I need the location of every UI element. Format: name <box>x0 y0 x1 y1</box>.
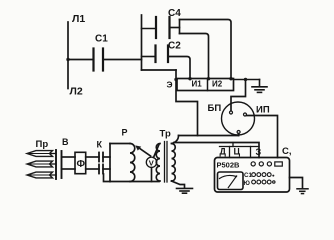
jack row 1 <box>244 172 274 179</box>
svg-text:Р: Р <box>122 128 128 138</box>
wire C2 plate to И1 <box>168 57 192 81</box>
wire C4 plate to И2 <box>170 20 233 81</box>
svg-text:Тр: Тр <box>160 129 171 140</box>
node junction antenna <box>66 58 69 61</box>
svg-text:З: З <box>256 147 262 157</box>
ground G3 <box>297 189 308 194</box>
svg-text:Пр: Пр <box>36 139 49 150</box>
wire bus vertical <box>141 15 143 70</box>
switch window <box>275 162 283 166</box>
mains arrow 2 <box>27 161 56 167</box>
svg-text:Ю: Ю <box>244 180 251 187</box>
wire В to Ф bottom <box>62 168 76 170</box>
knob 2 <box>259 162 263 166</box>
svg-text:V: V <box>149 159 154 168</box>
wire Ф to К top <box>86 156 99 158</box>
svg-text:Л1: Л1 <box>72 13 85 25</box>
ground G2 <box>177 188 193 193</box>
svg-text:С2: С2 <box>168 41 181 52</box>
svg-text:С4: С4 <box>168 8 181 19</box>
svg-text:И2: И2 <box>212 80 223 89</box>
wire Тр secondary to heater rail <box>172 136 179 144</box>
tube socket <box>222 102 255 135</box>
meter <box>218 172 244 190</box>
svg-text:Ц: Ц <box>234 147 241 157</box>
pin БП <box>230 111 233 114</box>
svg-text:БП: БП <box>208 103 222 114</box>
wire antenna to C1 <box>68 59 94 61</box>
voltmeter V <box>146 145 159 182</box>
wire box to ground <box>234 79 260 81</box>
wire heater rail <box>179 135 239 137</box>
wire pin ИП to С terminal <box>247 116 278 158</box>
capacitor C1 <box>94 34 109 71</box>
ground G1 <box>252 80 267 93</box>
svg-text:К: К <box>97 140 103 150</box>
wire C4 plate to И1 <box>180 34 211 81</box>
jack box И1 И2 <box>177 79 234 91</box>
svg-text:Л2: Л2 <box>70 86 83 98</box>
svg-text:Э: Э <box>167 80 173 90</box>
wire К to Р bottom <box>103 168 110 170</box>
wire Тр secondary to ground <box>172 181 185 188</box>
svg-text:С,: С, <box>282 146 292 157</box>
mains arrow 1 <box>27 151 56 157</box>
wire terminal row <box>220 143 260 158</box>
transformer Тр <box>156 142 175 183</box>
wire W2 <box>174 143 259 158</box>
capacitor C4 <box>142 8 182 38</box>
wire Э vertical <box>174 70 197 136</box>
svg-text:С1: С1 <box>95 34 108 45</box>
wire bus to Э node <box>142 69 177 71</box>
wire device to ground <box>290 178 303 188</box>
wire В to Ф top <box>62 156 76 158</box>
svg-text:С1: С1 <box>244 172 252 179</box>
knob 1 <box>251 162 255 166</box>
jack row 2 <box>244 180 275 187</box>
wire Ф to К bottom <box>86 168 99 170</box>
pin ИП <box>244 113 247 116</box>
svg-text:В: В <box>62 137 69 147</box>
wire antenna vertical <box>67 22 69 89</box>
svg-text:Ф: Ф <box>77 159 86 170</box>
mains arrow 3 <box>27 172 56 178</box>
pin heater <box>237 131 240 136</box>
variac Р <box>104 144 160 182</box>
capacitor C2 <box>142 41 182 63</box>
wire К to Р top <box>103 156 110 158</box>
wire C1 to bus <box>103 59 142 61</box>
device Р502В box <box>215 158 290 193</box>
switch В <box>56 150 62 179</box>
wiper arrow <box>135 145 150 156</box>
svg-text:Д: Д <box>220 147 227 157</box>
svg-text:ИП: ИП <box>256 105 270 116</box>
node junction <box>244 78 247 81</box>
wire to pin БП <box>231 80 246 111</box>
svg-text:И1: И1 <box>192 80 203 89</box>
knob 3 <box>267 162 271 166</box>
filter box Ф <box>75 152 86 173</box>
svg-text:Р502В: Р502В <box>217 161 241 170</box>
connector К <box>99 153 103 174</box>
